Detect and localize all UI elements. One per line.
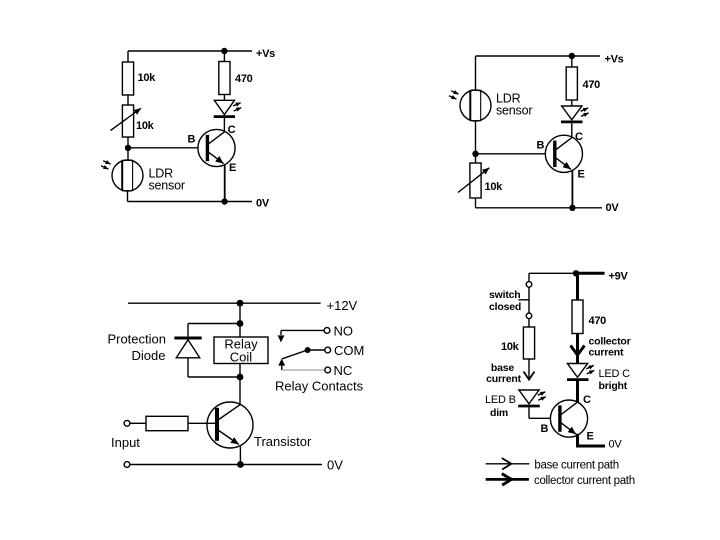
svg-text:sensor: sensor [496, 104, 532, 118]
svg-text:B: B [541, 423, 549, 435]
svg-text:base current path: base current path [534, 460, 618, 472]
svg-text:10k: 10k [485, 181, 504, 193]
svg-text:+Vs: +Vs [256, 48, 275, 60]
svg-text:Diode: Diode [132, 348, 166, 363]
svg-text:470: 470 [589, 315, 607, 327]
svg-text:470: 470 [583, 79, 601, 91]
svg-text:closed: closed [489, 301, 521, 313]
svg-text:+12V: +12V [327, 298, 358, 313]
svg-text:bright: bright [599, 380, 628, 392]
svg-text:E: E [229, 162, 236, 174]
svg-text:E: E [587, 431, 594, 443]
svg-text:0V: 0V [327, 458, 343, 473]
svg-text:current: current [589, 347, 624, 359]
svg-text:Relay Contacts: Relay Contacts [275, 379, 364, 394]
svg-text:NO: NO [334, 324, 354, 339]
svg-text:+9V: +9V [609, 271, 629, 283]
svg-text:E: E [578, 169, 585, 181]
svg-text:0V: 0V [609, 439, 623, 451]
svg-text:Coil: Coil [230, 350, 253, 365]
svg-text:C: C [583, 394, 591, 406]
svg-text:10k: 10k [501, 341, 520, 353]
svg-text:B: B [537, 140, 545, 152]
svg-text:collector current path: collector current path [534, 475, 635, 487]
svg-text:0V: 0V [256, 198, 270, 210]
svg-text:+Vs: +Vs [605, 54, 624, 66]
svg-text:switch: switch [489, 289, 520, 301]
svg-text:sensor: sensor [149, 179, 185, 193]
svg-text:B: B [188, 134, 196, 146]
svg-text:10k: 10k [136, 120, 155, 132]
svg-text:10k: 10k [138, 72, 157, 84]
svg-text:LED B: LED B [485, 394, 516, 406]
svg-text:0V: 0V [606, 202, 620, 214]
svg-text:Transistor: Transistor [254, 434, 312, 449]
svg-text:dim: dim [490, 407, 508, 419]
svg-text:470: 470 [235, 73, 253, 85]
svg-text:LED C: LED C [599, 368, 631, 380]
svg-text:Input: Input [111, 435, 140, 450]
svg-text:Protection: Protection [107, 332, 166, 347]
svg-text:current: current [486, 373, 521, 385]
svg-text:NC: NC [334, 363, 353, 378]
svg-text:COM: COM [334, 343, 364, 358]
